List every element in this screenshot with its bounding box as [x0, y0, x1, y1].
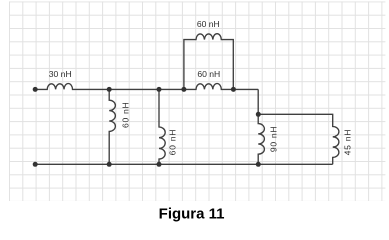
inductor L2 60 nH vertical middle: [159, 89, 165, 164]
svg-text:60 nH: 60 nH: [167, 129, 177, 155]
node top L2: [157, 87, 162, 92]
wire bottom rail: [35, 163, 333, 165]
node right bottom: [256, 162, 261, 167]
wire parallel loop with inductor coil 60 nH top: [184, 34, 233, 90]
wire top rail with inductor L30 coil: [35, 84, 258, 90]
svg-text:30 nH: 30 nH: [49, 69, 72, 79]
terminal bottom-left: [33, 162, 38, 167]
svg-text:45 nH: 45 nH: [342, 129, 352, 155]
node right mid: [256, 112, 261, 117]
node loop left: [181, 87, 186, 92]
node bottom L1: [107, 162, 112, 167]
terminal top-left: [33, 87, 38, 92]
inductor L1 60 nH vertical left: [109, 89, 115, 164]
svg-text:60 nH: 60 nH: [197, 19, 220, 29]
node top L1: [107, 87, 112, 92]
wire right branch to 45 nH: [258, 114, 339, 164]
svg-text:Figura 11: Figura 11: [159, 205, 225, 222]
svg-text:60 nH: 60 nH: [197, 69, 220, 79]
node loop right: [231, 87, 236, 92]
svg-text:90 nH: 90 nH: [269, 126, 279, 152]
svg-text:60 nH: 60 nH: [121, 102, 131, 128]
node bottom L2: [157, 162, 162, 167]
inductor L3 90 nH vertical: [258, 89, 264, 164]
